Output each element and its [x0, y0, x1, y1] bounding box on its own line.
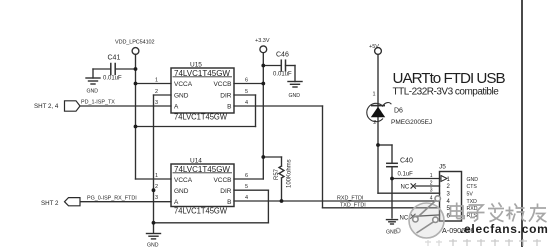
svg-text:4: 4 — [245, 195, 248, 201]
svg-text:.elecfans.com: .elecfans.com — [460, 222, 548, 236]
svg-text:A: A — [174, 104, 179, 111]
svg-text:GND: GND — [87, 89, 99, 95]
svg-text:J5: J5 — [439, 164, 446, 171]
svg-text:0.01uF: 0.01uF — [273, 72, 292, 78]
svg-text:2: 2 — [373, 120, 376, 126]
svg-text:3: 3 — [155, 195, 158, 201]
svg-text:2: 2 — [447, 184, 451, 190]
svg-text:1: 1 — [155, 173, 158, 179]
svg-text:74LVC1T45GW: 74LVC1T45GW — [174, 113, 227, 122]
svg-text:3: 3 — [430, 188, 433, 194]
svg-text:NC: NC — [401, 185, 410, 191]
svg-text:NC: NC — [400, 216, 409, 222]
svg-text:C40: C40 — [400, 158, 413, 165]
svg-text:5V: 5V — [467, 191, 474, 197]
svg-text:+3.3V: +3.3V — [255, 38, 270, 44]
svg-text:SHT 2: SHT 2 — [41, 200, 59, 207]
svg-text:5: 5 — [245, 89, 248, 95]
svg-text:0.01uF: 0.01uF — [103, 76, 122, 82]
svg-text:VCCA: VCCA — [174, 81, 193, 88]
svg-text:RXD: RXD — [467, 206, 478, 212]
svg-text:A: A — [174, 199, 179, 206]
svg-text:+5V: +5V — [369, 44, 379, 50]
svg-text:U14: U14 — [190, 158, 202, 165]
svg-text:VCCB: VCCB — [213, 177, 231, 184]
svg-text:5: 5 — [245, 184, 248, 190]
svg-text:R57: R57 — [274, 168, 280, 180]
svg-text:1: 1 — [155, 78, 158, 84]
svg-text:VDD_LPC54102: VDD_LPC54102 — [115, 40, 155, 46]
svg-text:GND: GND — [289, 93, 301, 99]
svg-text:6: 6 — [245, 78, 248, 84]
svg-text:4: 4 — [447, 199, 451, 205]
svg-text:PD_1-ISP_TX: PD_1-ISP_TX — [81, 100, 115, 106]
svg-text:1: 1 — [447, 177, 451, 183]
svg-text:B: B — [227, 104, 231, 111]
svg-text:0.1uF: 0.1uF — [398, 172, 414, 178]
svg-text:PG_0-ISP_RX_FTDI: PG_0-ISP_RX_FTDI — [87, 196, 137, 202]
svg-text:C41: C41 — [108, 55, 121, 62]
svg-text:1: 1 — [372, 92, 375, 98]
svg-text:74LVC1T45GW: 74LVC1T45GW — [174, 165, 230, 174]
svg-text:U15: U15 — [190, 62, 202, 69]
svg-text:UARTto FTDI USB: UARTto FTDI USB — [393, 70, 506, 87]
svg-text:3: 3 — [447, 191, 451, 197]
svg-text:GND: GND — [147, 243, 159, 247]
svg-text:TXD: TXD — [467, 199, 478, 205]
svg-text:VCCA: VCCA — [174, 177, 193, 184]
svg-text:DIR: DIR — [220, 188, 232, 195]
svg-text:CTS: CTS — [467, 184, 478, 190]
svg-text:74LVC1T45GW: 74LVC1T45GW — [174, 207, 227, 216]
svg-text:TTL-232R-3V3 compatible: TTL-232R-3V3 compatible — [393, 86, 500, 97]
svg-text:2: 2 — [155, 89, 158, 95]
svg-text:SHT 2, 4: SHT 2, 4 — [34, 103, 59, 110]
svg-text:74LVC1T45GW: 74LVC1T45GW — [174, 69, 230, 78]
svg-text:100Kohms: 100Kohms — [287, 159, 293, 188]
svg-text:1: 1 — [430, 173, 433, 179]
svg-text:GND: GND — [174, 188, 189, 195]
svg-text:3: 3 — [155, 100, 158, 106]
svg-text:GND: GND — [467, 177, 479, 183]
svg-text:D6: D6 — [394, 107, 403, 114]
svg-text:C46: C46 — [276, 52, 289, 59]
svg-text:RXD_FTDI: RXD_FTDI — [337, 195, 363, 201]
svg-text:4: 4 — [430, 196, 433, 202]
svg-text:2: 2 — [155, 184, 158, 190]
svg-text:DIR: DIR — [220, 93, 232, 100]
svg-text:B: B — [227, 199, 231, 206]
svg-text:6: 6 — [245, 173, 248, 179]
svg-text:VCCB: VCCB — [213, 81, 231, 88]
svg-text:2: 2 — [430, 181, 433, 187]
svg-text:4: 4 — [245, 100, 248, 106]
svg-text:GND: GND — [174, 93, 189, 100]
svg-text:PMEG2005EJ: PMEG2005EJ — [391, 119, 432, 126]
svg-text:TXD_FTDI: TXD_FTDI — [340, 202, 366, 208]
